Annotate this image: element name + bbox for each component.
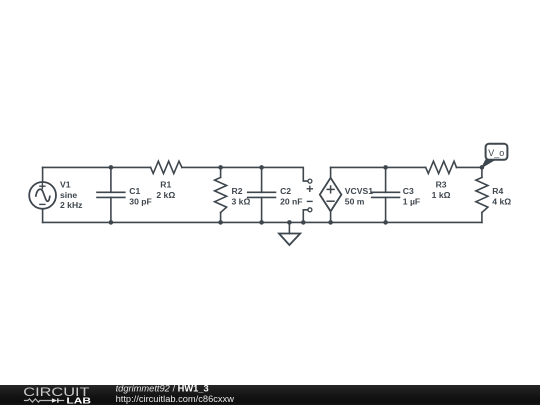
svg-text:tdgrimmett92 / HW1_3: tdgrimmett92 / HW1_3 [116, 384, 209, 394]
svg-text:1 kΩ: 1 kΩ [432, 190, 451, 200]
wire top rail right [331, 166, 426, 168]
footer bar [0, 385, 540, 405]
wire VCVS minus input to bottom rail [303, 210, 308, 223]
control plus sign [307, 186, 312, 191]
logo resistor-diode squiggle [24, 398, 64, 402]
junction node V_o [480, 165, 485, 170]
svg-text:1 µF: 1 µF [403, 196, 420, 206]
svg-text:R1: R1 [160, 180, 171, 190]
wire bottom rail [43, 221, 482, 223]
junction VCVS1 bottom [328, 220, 333, 225]
svg-text:sine: sine [60, 190, 77, 200]
svg-text:http://circuitlab.com/c86cxxw: http://circuitlab.com/c86cxxw [116, 394, 235, 404]
svg-text:R4: R4 [492, 186, 503, 196]
svg-text:R2: R2 [232, 186, 243, 196]
svg-text:VCVS1: VCVS1 [345, 186, 373, 196]
junction C3 bottom [383, 220, 388, 225]
VCVS1 plus input terminal [308, 179, 312, 183]
svg-text:3 kΩ: 3 kΩ [232, 196, 251, 206]
control minus sign [308, 200, 313, 202]
junction C3 top [383, 165, 388, 170]
resistor R1 [151, 161, 182, 173]
svg-text:2 kΩ: 2 kΩ [156, 190, 175, 200]
junction R2 bottom [218, 220, 223, 225]
ground [279, 222, 300, 245]
svg-text:30 pF: 30 pF [129, 196, 151, 206]
junction VCVS minus wire [301, 220, 306, 225]
capacitor C1 [97, 167, 125, 222]
resistor R3 [426, 161, 457, 173]
VCVS1 minus input terminal [308, 208, 312, 212]
svg-text:2 kHz: 2 kHz [60, 200, 82, 210]
junction ground [287, 220, 292, 225]
svg-text:50 m: 50 m [345, 196, 365, 206]
svg-text:C3: C3 [403, 186, 414, 196]
svg-text:R3: R3 [436, 180, 447, 190]
svg-text:V1: V1 [60, 180, 71, 190]
junction C1 top [109, 165, 114, 170]
resistor R2 [215, 167, 227, 222]
junction R2 top [218, 165, 223, 170]
capacitor C3 [372, 167, 400, 222]
capacitor C2 [248, 167, 276, 222]
svg-text:C2: C2 [280, 186, 291, 196]
junction C2 bottom [259, 220, 264, 225]
voltage source V1 [29, 167, 56, 222]
svg-text:4 kΩ: 4 kΩ [492, 196, 511, 206]
wire top rail left [43, 166, 151, 168]
wire R3 to node V_o [457, 166, 482, 168]
svg-text:20 nF: 20 nF [280, 196, 302, 206]
dependent source VCVS1 [320, 167, 342, 222]
resistor R4 [476, 167, 488, 222]
svg-text:C1: C1 [129, 186, 140, 196]
svg-text:LAB: LAB [66, 395, 91, 405]
node V_o flag [482, 144, 508, 168]
junction C1 bottom [109, 220, 114, 225]
wire R1 to VCVS plus input [182, 167, 308, 181]
junction C2 top [259, 165, 264, 170]
svg-text:V_o: V_o [488, 148, 504, 158]
